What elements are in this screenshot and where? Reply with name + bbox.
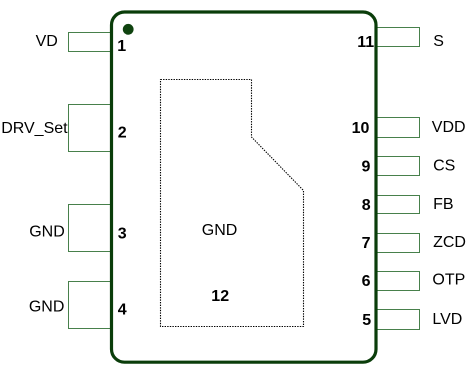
svg-text:FB: FB [433,196,453,213]
svg-text:GND: GND [29,299,65,316]
svg-text:12: 12 [211,288,229,305]
svg-text:DRV_Set: DRV_Set [1,120,68,137]
svg-text:ZCD: ZCD [433,234,466,251]
svg-text:GND: GND [29,223,65,240]
svg-text:1: 1 [117,38,126,55]
svg-text:S: S [433,33,444,50]
svg-text:10: 10 [352,120,370,137]
svg-text:OTP: OTP [432,272,465,289]
svg-text:8: 8 [362,197,371,214]
svg-text:11: 11 [357,34,374,51]
svg-text:VDD: VDD [432,119,466,136]
svg-text:7: 7 [362,235,371,252]
svg-text:5: 5 [362,312,371,329]
svg-text:6: 6 [362,273,371,290]
svg-text:LVD: LVD [432,311,462,328]
svg-text:3: 3 [118,226,127,243]
svg-text:9: 9 [361,158,370,175]
svg-text:VD: VD [36,33,58,50]
svg-text:GND: GND [202,222,238,239]
svg-text:CS: CS [433,157,455,174]
svg-text:2: 2 [118,125,127,142]
svg-text:4: 4 [118,302,127,319]
